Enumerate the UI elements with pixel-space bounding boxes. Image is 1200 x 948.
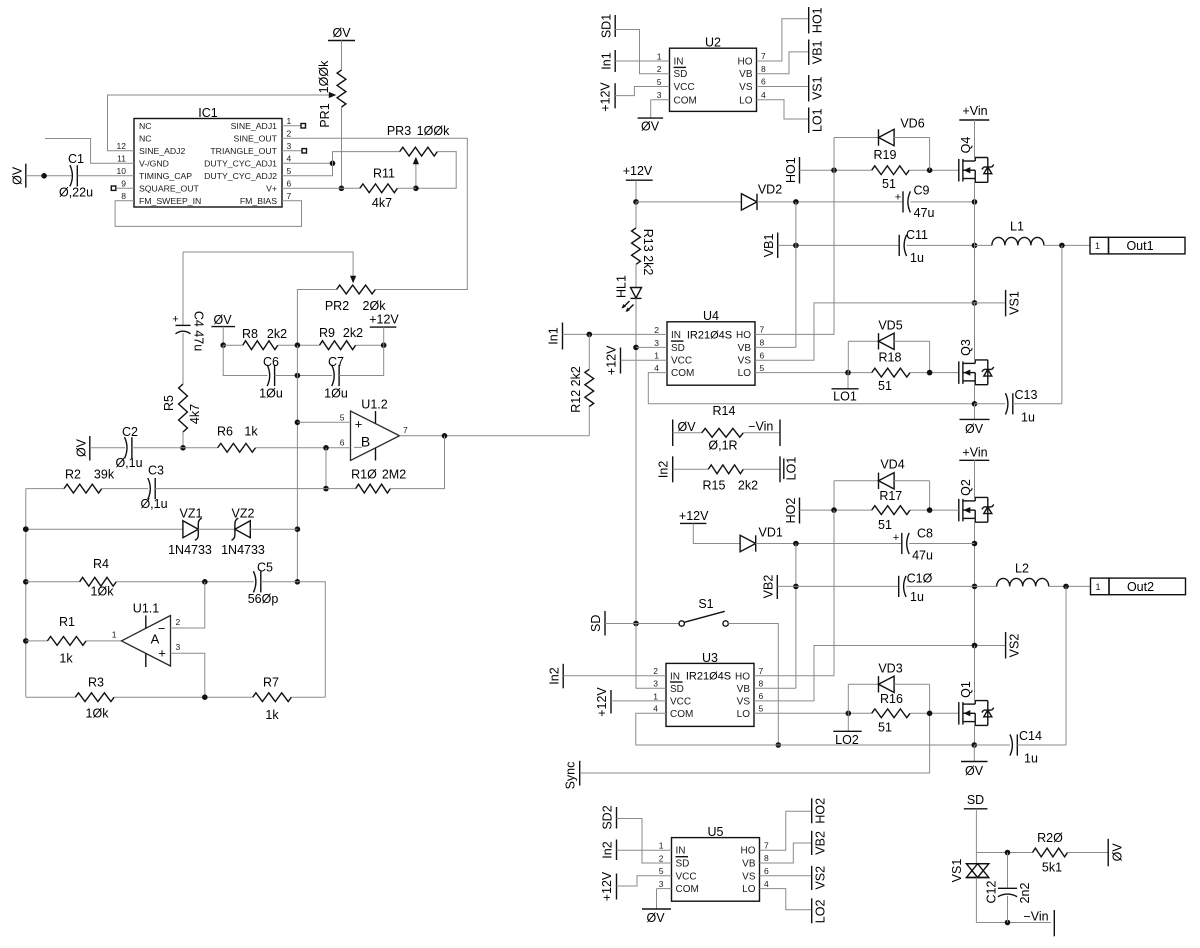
node VB2 flag at U5 [811,831,813,855]
capacitor C14 1u [1010,734,1013,755]
svg-text:ØV: ØV [332,26,351,40]
svg-text:Out1: Out1 [1126,239,1153,253]
svg-text:HO1: HO1 [784,157,798,183]
svg-text:C11: C11 [906,228,928,242]
svg-text:2k2: 2k2 [343,326,363,340]
svg-text:VB2: VB2 [814,831,828,855]
wire +12V to VD1 [693,523,740,543]
ground 0V below U5 [657,888,672,890]
svg-text:NC: NC [139,133,152,143]
svg-text:ØV: ØV [965,422,984,436]
wire IC1 pin12 to PR1 wiper [108,95,334,151]
svg-text:51: 51 [878,379,892,393]
wire U2 VB to VB1 flag [757,52,809,74]
svg-text:Ø,1R: Ø,1R [708,438,737,452]
svg-text:Q3: Q3 [959,339,973,356]
svg-text:6: 6 [287,178,292,188]
wire triac top row to R20 [976,852,1032,854]
svg-text:VS: VS [738,356,752,367]
wire VB2 net vertical [795,544,797,689]
transistor Q4 mosfet [958,159,960,182]
svg-text:1: 1 [659,841,664,851]
wire output to R10 right [390,436,444,489]
svg-text:51: 51 [878,720,892,734]
svg-text:ØV: ØV [641,119,660,133]
svg-text:A: A [151,631,160,646]
node HO1 flag at gate row [799,157,801,184]
svg-text:1Øu: 1Øu [259,386,283,400]
wire PR2 wiper feed from C4 node [183,252,353,280]
capacitor C1 [70,165,73,186]
svg-text:HO: HO [741,846,756,857]
svg-text:2n2: 2n2 [1018,883,1032,904]
svg-text:1ØØk: 1ØØk [317,60,331,93]
svg-text:9: 9 [121,179,126,189]
svg-text:VS: VS [737,696,751,707]
wire R17 to Q2 gate [910,509,959,511]
svg-text:VS: VS [739,82,753,93]
wire left feedback vertical [25,489,27,698]
wire pin5 DUTY_CYC_ADJ2 up to PR3 left [282,152,400,176]
svg-text:VD4: VD4 [880,457,904,471]
svg-text:R3: R3 [88,675,104,689]
svg-text:VD1: VD1 [759,525,783,539]
svg-text:R11: R11 [373,166,395,180]
svg-text:LO2: LO2 [814,900,828,924]
resistor R5 4k7 [179,384,188,432]
svg-text:NC: NC [139,121,152,131]
svg-text:IN: IN [671,330,681,341]
svg-text:8: 8 [760,338,765,348]
svg-text:C14: C14 [1019,729,1042,743]
node HO2 flag at gate row [799,498,801,524]
svg-text:1u: 1u [1024,751,1038,765]
svg-text:VB1: VB1 [811,40,825,64]
wire pin6 node down to R10 row [325,448,327,489]
svg-text:COM: COM [676,884,699,895]
svg-text:IN: IN [676,846,686,857]
svg-text:R14: R14 [713,404,736,418]
node VS1 flag top [808,75,810,102]
svg-text:6: 6 [761,77,766,87]
svg-text:HL1: HL1 [614,275,628,298]
node LO1 flag below U4 [847,373,849,389]
svg-text:3: 3 [659,879,664,889]
wire SD net down to U3 SD [636,624,666,689]
svg-text:HO: HO [736,330,751,341]
node 0V flag right of R20 [1068,852,1109,854]
svg-text:L1: L1 [1010,219,1024,233]
svg-text:VB1: VB1 [762,234,776,258]
wire +12V to U4 VCC [621,359,668,361]
ground 0V below Q1 [973,745,975,762]
svg-text:SINE_ADJ1: SINE_ADJ1 [231,121,278,131]
svg-text:+12V: +12V [604,345,618,375]
wire +12V to VD2 [636,201,741,203]
wire In2 to U3 IN [563,675,666,677]
svg-text:+Vin: +Vin [962,104,987,118]
svg-text:1Øu: 1Øu [324,386,348,400]
wire SD down to VS1 triac [975,809,977,864]
wire VD2 to C9 and Q4 drain [757,201,903,203]
node VS2 flag at U5 [811,866,813,890]
potentiometer PR1 100k [337,70,346,107]
svg-text:IN: IN [674,57,684,68]
node VB1 flag mid [777,233,779,259]
wire C5 node to R7 vertical [297,582,325,697]
svg-text:3: 3 [657,90,662,100]
wire Out1 node down to C13 row [1061,245,1063,403]
svg-text:C6: C6 [263,355,279,369]
connector Out2 [1091,578,1110,595]
IC U4 gate driver box [667,322,755,385]
svg-text:In1: In1 [600,52,614,69]
wire SD to S1 [605,623,679,625]
LED HL1 [635,264,637,287]
svg-text:8: 8 [759,678,764,688]
transistor Q2 mosfet [958,499,960,522]
wire U1.2 output pin7 [400,435,590,437]
svg-text:R9: R9 [319,326,335,340]
svg-text:1Øk: 1Øk [86,706,110,720]
svg-text:ØV: ØV [646,911,665,925]
svg-text:2: 2 [653,666,658,676]
capacitor C12 2n2 [1007,853,1009,888]
svg-text:+Vin: +Vin [962,445,987,459]
wire L2 to Out2 [1049,585,1091,587]
svg-text:+: + [158,645,166,660]
svg-text:Out2: Out2 [1127,580,1154,594]
svg-text:PR3: PR3 [387,124,411,138]
svg-text:R2: R2 [65,467,81,481]
wire Q3 drain from VS1 node [974,303,976,360]
wire U4 VS to VS1 node [755,303,975,360]
svg-text:HO: HO [735,671,750,682]
node In2 flag at U5 [616,840,618,861]
no-connect square IC1 pin1 [282,125,301,127]
wire In1 to U2 pin1 [615,60,669,62]
svg-text:LO: LO [739,95,753,106]
svg-text:5k1: 5k1 [1042,861,1062,875]
svg-text:VCC: VCC [676,871,697,882]
IC IC1 function generator box [134,119,282,208]
op-amp U1.1 [122,616,171,667]
svg-text:1: 1 [287,116,292,126]
wire U4 VB right [755,346,796,348]
wire pin4 DUTY_CYC_ADJ1 [282,162,333,164]
wire Q4 source down to VS1 node [974,182,976,303]
svg-text:Sync: Sync [564,762,578,790]
wire U2 VS to VS1 flag [757,86,809,88]
svg-text:SD: SD [671,343,685,354]
svg-text:PR2: PR2 [325,299,349,313]
svg-text:ØV: ØV [11,166,25,185]
node VB1 flag top [808,40,810,66]
wire SINE_OUT pin2 to PR2 right [282,138,467,289]
diode VD3 [847,684,849,713]
svg-text:SD: SD [670,684,684,695]
svg-text:VS: VS [742,871,756,882]
svg-text:2: 2 [176,617,181,627]
svg-text:R8: R8 [242,327,258,341]
svg-text:6: 6 [759,691,764,701]
node VS1 flag at Q4 source [975,302,1006,304]
svg-text:R1Ø: R1Ø [351,467,377,481]
svg-text:R18: R18 [879,351,902,365]
capacitor C13 1u [1005,393,1008,414]
wire PR3 wiper [415,161,417,189]
diode VD6 [833,138,835,171]
svg-text:ØV: ØV [965,764,984,778]
wire U4 LO to R18 [755,372,872,374]
svg-text:VZ1: VZ1 [180,506,203,520]
node +12V flag at U5 [616,874,618,900]
svg-text:U3: U3 [702,651,718,665]
svg-text:1k: 1k [59,651,73,665]
node -Vin flag at R14 [743,432,780,434]
svg-text:1Øk: 1Øk [91,584,115,598]
svg-text:47u: 47u [914,206,935,220]
svg-text:4k7: 4k7 [188,404,202,424]
wire U5 VS to VS2 flag [760,875,812,877]
wire S1 right to ground row [728,624,778,746]
wire Q1 drain from VS2 node [974,646,976,701]
node SD flag at S1 [604,611,606,636]
svg-text:VCC: VCC [674,82,695,93]
wire In2 to U5 IN [617,849,672,851]
svg-text:4: 4 [654,363,659,373]
wire bias bottom row with C6 C7 [223,345,267,375]
svg-text:2: 2 [657,64,662,74]
svg-text:VS1: VS1 [811,76,825,100]
node +12V flag at U2 [614,83,616,108]
wire U4 COM to ground row [648,373,974,404]
node SD2 flag [616,807,618,829]
svg-text:TRIANGLE_OUT: TRIANGLE_OUT [210,146,277,156]
svg-text:C3: C3 [148,463,164,477]
svg-text:C8: C8 [917,526,933,540]
svg-text:5: 5 [657,77,662,87]
svg-text:VCC: VCC [671,356,692,367]
svg-text:C7: C7 [328,355,344,369]
svg-text:HO2: HO2 [814,798,828,824]
wire Sync to Q1 gate node [580,713,930,773]
diode VD1 [740,535,756,551]
svg-text:In1: In1 [547,327,561,344]
svg-text:VS2: VS2 [1008,634,1022,658]
capacitor C7 10u [332,365,335,386]
svg-text:HO2: HO2 [784,498,798,524]
svg-text:1: 1 [112,629,117,639]
svg-text:7: 7 [403,425,408,435]
IC U3 gate driver box [666,663,754,726]
connector Out1 [1090,237,1109,254]
svg-text:SINE_OUT: SINE_OUT [234,133,278,143]
svg-text:+12V: +12V [679,509,709,523]
wire IC1 pin11 V-/GND stub [45,139,134,164]
capacitor C10 1u [796,585,899,587]
svg-text:+: + [893,532,899,544]
svg-text:1k: 1k [265,708,279,722]
ground 0V below Q3 [974,404,976,420]
wire zener row [26,528,183,530]
svg-text:SD: SD [676,859,690,870]
wire R18 to Q3 gate [910,372,959,374]
svg-text:C9: C9 [914,184,930,198]
svg-text:+12V: +12V [369,312,399,326]
svg-text:LO: LO [738,368,752,379]
svg-text:1ØØk: 1ØØk [417,124,450,138]
wire U1.1 pin3 to R3 row [171,653,205,697]
wire HO1 to R19 [800,169,872,171]
wire U3 COM ground row to C14 and Out2 [636,713,975,745]
svg-text:+12V: +12V [595,687,609,717]
svg-text:SD: SD [674,69,688,80]
node In1 flag at U2 [614,50,616,72]
svg-text:R6: R6 [217,424,233,438]
svg-text:3: 3 [176,642,181,652]
node In2 flag at R15 [672,456,674,482]
transistor Q3 mosfet [958,361,960,384]
svg-text:ØV: ØV [213,313,232,327]
svg-text:12: 12 [117,141,127,151]
svg-text:VD6: VD6 [900,116,924,130]
diode VD2 [741,194,757,210]
svg-text:IR21Ø4S: IR21Ø4S [687,329,732,341]
wire +12V to U5 VCC [617,876,672,886]
wire center bias vertical [296,345,298,582]
svg-text:V+: V+ [266,183,277,193]
capacitor C6 10u [267,365,270,386]
svg-text:C1Ø: C1Ø [907,572,933,586]
svg-text:V-/GND: V-/GND [139,158,169,168]
svg-text:SINE_ADJ2: SINE_ADJ2 [139,146,186,156]
wire U2 HO to HO1 flag [757,19,809,61]
svg-text:8: 8 [121,191,126,201]
node LO2 flag below R16 [847,713,849,731]
svg-text:−Vin: −Vin [748,419,773,433]
wire R5 to C2 row [182,432,184,448]
svg-text:SD: SD [967,793,984,807]
svg-text:C13: C13 [1015,388,1038,402]
svg-text:51: 51 [878,518,892,532]
wire U3 HO up to HO2 node [754,675,834,677]
node LO1 flag at R15 [743,468,780,470]
resistor R11 4k7 [360,184,398,193]
svg-text:U1.1: U1.1 [133,601,159,615]
svg-text:Q1: Q1 [959,681,973,698]
wire IC1 FM loop pin8-pin7 [115,201,301,227]
capacitor C2 0,1u [125,437,128,458]
svg-text:2k2: 2k2 [267,327,287,341]
node 0V rail at C1 [25,164,27,188]
svg-text:1: 1 [654,351,659,361]
svg-text:DUTY_CYC_ADJ2: DUTY_CYC_ADJ2 [204,171,277,181]
svg-text:4: 4 [287,153,292,163]
svg-text:SQUARE_OUT: SQUARE_OUT [139,183,200,193]
svg-text:R17: R17 [879,489,902,503]
wire R12 to op-amp output [588,407,590,436]
IC U2 gate driver box [670,48,757,111]
ground 0V below U2 [651,99,670,101]
wire +12V down to VD2 row [635,180,637,202]
node +12V flag at U4 [620,348,622,374]
svg-text:U4: U4 [703,309,719,323]
resistor R15 2k2 [673,468,709,470]
inductor L1 [975,244,992,246]
wire Out2 node down to C14 row [1065,586,1067,745]
svg-text:C1: C1 [68,152,84,166]
svg-text:U2: U2 [705,36,721,50]
svg-text:In2: In2 [657,461,671,478]
node Sync flag [579,761,581,786]
no-connect square IC1 pin3 [282,150,302,152]
svg-text:R15: R15 [703,478,726,492]
svg-text:IC1: IC1 [198,106,218,120]
svg-text:VB: VB [737,684,751,695]
svg-text:2: 2 [654,325,659,335]
node In1 flag at U4 [562,323,564,350]
svg-text:4: 4 [761,90,766,100]
svg-text:Q2: Q2 [959,479,973,496]
svg-text:1u: 1u [1021,410,1035,424]
svg-text:VB: VB [742,859,756,870]
svg-text:5: 5 [659,866,664,876]
svg-text:39k: 39k [94,467,115,481]
svg-text:R19: R19 [874,148,897,162]
node 0V flag at C2 [89,436,91,461]
wire +12V to U2 VCC [615,87,669,96]
svg-text:ØV: ØV [677,420,696,434]
svg-text:+12V: +12V [598,82,612,112]
node In2 flag at U3 [562,664,564,689]
wire R16 to Q1 gate [910,712,959,714]
svg-text:VS1: VS1 [950,859,964,883]
svg-text:VS1: VS1 [1008,291,1022,315]
svg-text:U1.2: U1.2 [361,397,387,411]
wire U5 VB to VB2 flag [760,843,812,863]
wire Q2 source down to VS2 node [974,522,976,645]
svg-text:+12V: +12V [600,871,614,901]
svg-text:1u: 1u [910,590,924,604]
op-amp U1.2 [351,411,400,461]
node +12V flag at U3 [610,690,612,714]
wire 0V to C1 [26,175,72,177]
wire U3 VS to VS2 node [754,646,1006,701]
svg-text:VB: VB [738,343,752,354]
svg-text:51: 51 [882,177,896,191]
wire HO2 to R17 [800,509,872,511]
svg-text:R1: R1 [59,615,75,629]
svg-text:ØV: ØV [75,438,89,457]
wire U1.1 pin2 to C5 node [171,582,205,628]
wire +12V to U3 VCC [611,700,666,702]
svg-text:VZ2: VZ2 [232,506,255,520]
svg-text:LO: LO [742,884,756,895]
svg-text:47u: 47u [912,548,933,562]
wire Q1 source to ground row [974,725,976,745]
node LO2 flag at U5 [811,898,813,923]
svg-text:COM: COM [670,709,693,720]
svg-text:+12V: +12V [623,164,653,178]
svg-text:5: 5 [287,166,292,176]
svg-text:+: + [172,313,178,325]
node 0V rail above PR1 [328,40,355,42]
transistor Q1 mosfet [958,702,960,725]
svg-text:7: 7 [287,191,292,201]
svg-text:PR1: PR1 [318,103,332,127]
svg-text:1N4733: 1N4733 [168,543,212,557]
